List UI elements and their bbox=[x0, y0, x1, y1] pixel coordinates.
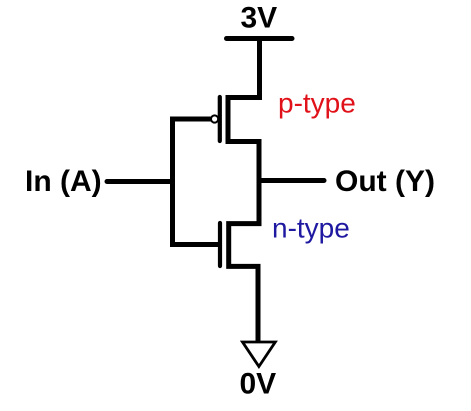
svg-text:n-type: n-type bbox=[272, 213, 350, 244]
svg-text:In (A): In (A) bbox=[25, 165, 102, 198]
svg-text:Out (Y): Out (Y) bbox=[335, 165, 435, 198]
svg-text:0V: 0V bbox=[240, 368, 277, 401]
svg-text:p-type: p-type bbox=[278, 88, 356, 119]
svg-text:3V: 3V bbox=[241, 2, 278, 35]
